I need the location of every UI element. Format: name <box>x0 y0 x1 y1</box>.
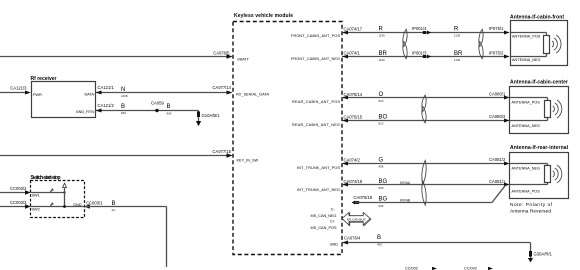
svg-text:CA080/2: CA080/2 <box>489 114 506 119</box>
svg-text:CA121/1: CA121/1 <box>98 85 115 90</box>
svg-text:CA121/2: CA121/2 <box>98 103 115 108</box>
svg-text:CC/002: CC/002 <box>464 267 477 270</box>
svg-text:CA080/1: CA080/1 <box>489 92 506 97</box>
svg-text:IP001/3: IP001/3 <box>412 51 427 56</box>
svg-text:REAR_CABIN_ANT_NEG: REAR_CABIN_ANT_NEG <box>292 123 340 127</box>
svg-text:R: R <box>454 27 459 33</box>
svg-text:1136: 1136 <box>454 34 461 38</box>
svg-text:B: B <box>167 104 171 110</box>
svg-text:BG: BG <box>379 179 388 185</box>
svg-text:INT_TRUNK_ANT_POS: INT_TRUNK_ANT_POS <box>297 166 340 170</box>
svg-text:GND_RTN: GND_RTN <box>76 110 95 114</box>
svg-text:4A: 4A <box>112 208 116 212</box>
svg-text:KEY_IN_SW: KEY_IN_SW <box>237 159 259 163</box>
svg-text:Switch-start-stop: Switch-start-stop <box>31 175 61 181</box>
svg-text:G: G <box>379 157 384 163</box>
svg-text:Keyless vehicle module: Keyless vehicle module <box>234 13 293 19</box>
svg-text:Note: Polarity of: Note: Polarity of <box>510 202 553 208</box>
svg-text:810: 810 <box>379 122 384 126</box>
svg-text:CC003/2: CC003/2 <box>10 186 27 191</box>
svg-text:ANTENNA_POS: ANTENNA_POS <box>512 35 541 39</box>
svg-text:SW2: SW2 <box>32 208 40 212</box>
svg-text:CC003/3: CC003/3 <box>10 200 27 205</box>
svg-text:N: N <box>121 87 125 93</box>
svg-text:IP075/2: IP075/2 <box>489 51 504 56</box>
svg-text:B: B <box>377 235 381 241</box>
svg-text:908: 908 <box>379 186 384 190</box>
svg-text:CC/002: CC/002 <box>405 267 418 270</box>
svg-text:908: 908 <box>379 164 384 168</box>
svg-text:FRONT_CABIN_ANT_NEG: FRONT_CABIN_ANT_NEG <box>291 57 340 61</box>
svg-text:CA074/19: CA074/19 <box>344 179 363 184</box>
svg-text:Antenna-lf-rear-internal: Antenna-lf-rear-internal <box>510 145 569 151</box>
svg-text:1136: 1136 <box>454 58 461 62</box>
svg-text:CA074/17: CA074/17 <box>344 27 363 32</box>
svg-text:ANTENNA_NEG: ANTENNA_NEG <box>512 167 541 171</box>
svg-text:FRONT_CABIN_ANT_POS: FRONT_CABIN_ANT_POS <box>291 34 340 38</box>
svg-text:IP001/4: IP001/4 <box>412 26 427 31</box>
svg-text:810: 810 <box>379 99 384 103</box>
svg-text:CA075/15: CA075/15 <box>344 115 363 120</box>
svg-text:PWR: PWR <box>33 93 42 97</box>
svg-text:CA075/14: CA075/14 <box>344 92 363 97</box>
svg-text:GND: GND <box>73 203 82 207</box>
svg-text:ANTENNA_NEG: ANTENNA_NEG <box>512 58 541 62</box>
svg-text:BR: BR <box>454 51 463 57</box>
svg-text:B: B <box>121 104 125 110</box>
svg-text:BR: BR <box>379 51 388 57</box>
svg-text:CA076/18: CA076/18 <box>354 195 373 200</box>
svg-text:CA121/3: CA121/3 <box>10 86 27 91</box>
svg-text:CA076/5: CA076/5 <box>213 51 230 56</box>
svg-text:VBATT: VBATT <box>237 58 250 62</box>
svg-text:CA076/4: CA076/4 <box>344 235 361 240</box>
svg-text:B: B <box>112 201 116 207</box>
svg-text:C+: C+ <box>330 220 336 224</box>
svg-text:O: O <box>379 92 384 98</box>
svg-text:1136: 1136 <box>379 58 386 62</box>
svg-text:Antenna-lf-cabin-front: Antenna-lf-cabin-front <box>510 15 564 21</box>
svg-text:CA081/2: CA081/2 <box>489 157 506 162</box>
svg-text:ANTENNA_NEG: ANTENNA_NEG <box>512 124 541 128</box>
svg-text:CA077/14: CA077/14 <box>212 85 231 90</box>
svg-text:840: 840 <box>121 111 126 115</box>
svg-text:GND: GND <box>330 243 339 247</box>
svg-text:Rf receiver: Rf receiver <box>31 76 57 82</box>
svg-text:Antenna Reversed: Antenna Reversed <box>510 209 551 215</box>
svg-text:G30A/R/1: G30A/R/1 <box>534 252 553 257</box>
svg-text:905: 905 <box>167 111 172 115</box>
svg-text:K9YAA: K9YAA <box>400 181 411 185</box>
svg-text:CA074/2: CA074/2 <box>344 158 361 163</box>
svg-text:K9YAB: K9YAB <box>400 199 410 203</box>
svg-text:1136: 1136 <box>379 34 386 38</box>
svg-text:Antenna-lf-cabin-center: Antenna-lf-cabin-center <box>510 80 568 86</box>
svg-text:ANTENNA_POS: ANTENNA_POS <box>512 101 541 105</box>
svg-text:BO: BO <box>379 115 388 121</box>
svg-text:G10A/B/1: G10A/B/1 <box>202 113 221 118</box>
svg-text:BG: BG <box>379 197 388 203</box>
svg-text:MS CAN BUS: MS CAN BUS <box>347 217 366 221</box>
svg-text:908: 908 <box>379 204 384 208</box>
svg-text:CA074/1: CA074/1 <box>344 51 361 56</box>
svg-text:R: R <box>379 27 384 33</box>
svg-text:SW1: SW1 <box>32 194 40 198</box>
svg-text:CA059: CA059 <box>151 101 164 106</box>
svg-text:REAR_CABIN_ANT_POS: REAR_CABIN_ANT_POS <box>292 100 340 104</box>
svg-text:ANTENNA_POS: ANTENNA_POS <box>512 190 541 194</box>
svg-text:DATA: DATA <box>84 93 94 97</box>
svg-text:CA081/1: CA081/1 <box>489 179 506 184</box>
svg-text:2108: 2108 <box>121 94 128 98</box>
svg-text:INT_TRUNK_ANT_NEG: INT_TRUNK_ANT_NEG <box>297 188 340 192</box>
svg-text:IP075/1: IP075/1 <box>489 26 504 31</box>
svg-text:400: 400 <box>377 242 382 246</box>
svg-text:CC003/1: CC003/1 <box>86 201 103 206</box>
svg-text:MS_CAN_NEG: MS_CAN_NEG <box>311 214 337 218</box>
svg-text:CA077/15: CA077/15 <box>212 149 231 154</box>
svg-text:MS_CAN_POS: MS_CAN_POS <box>311 226 337 230</box>
svg-text:RX_SERIAL_DATA: RX_SERIAL_DATA <box>236 93 269 97</box>
